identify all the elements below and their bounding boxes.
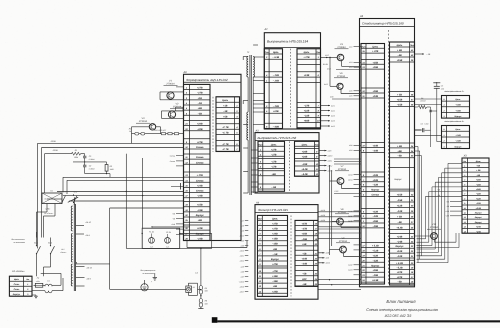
connector A1 Сеть table [11,270,25,273]
A8 left stubs with labels [170,87,184,234]
A4 left net labels [239,219,249,293]
wire bus top [38,143,184,248]
V7 label [335,165,349,171]
block A3 Выпрямитель НП5.015.156 [255,129,320,193]
A5 left input stubs mid [347,144,361,196]
V2 label [170,103,184,109]
A2 dashed divider [290,49,292,129]
T1 switch arm [68,197,78,204]
A5 left rows g7 [361,242,385,244]
A1 rows [9,276,32,296]
A5 right pin column [390,42,415,285]
A5 left rows g3 [361,87,385,89]
transformer T1 winding [71,206,72,286]
V9 label [336,237,350,243]
A2 right rows g3 [297,102,321,104]
block A8 Формирователь АЦ5.145.012 [183,71,242,240]
block A2 Выпрямитель НП5.015.154 [264,28,321,129]
fuse Пр1 [34,277,46,288]
A3 right rows g3 [295,160,320,162]
transistor V6 2Т903А [337,83,343,89]
resistor R1 [45,149,85,159]
block A5 Стабилизатор НП5.015.160 [359,15,415,287]
A5 left pin column [361,44,385,285]
switch contacts S2-2 right of box [73,191,77,203]
fuse F1 [149,230,155,243]
A2 right rows g2 [297,71,321,73]
lamp H1 loop [188,283,201,295]
A4 dashed divider [290,215,292,296]
connector электропитание 3 table [444,120,465,123]
resistor R6 [199,299,208,308]
switch S1 sub labels [44,208,53,215]
transformer T2 primary winding mid [247,112,248,140]
A4 right rows g1 [295,219,318,221]
V10 label [427,223,441,229]
wire bus mid [57,177,186,289]
transistor V10 2Т908А [431,233,438,240]
V5 label [335,43,349,49]
note не включать centre [141,269,156,275]
A4 left pin column [258,215,288,296]
A2 lower output arrows [321,104,335,128]
A2 left rows g2 [264,71,282,73]
resistor R2 [105,162,114,174]
transformer T2 secondary winding [253,57,254,78]
switch contacts S1-2 [44,238,55,277]
A8 left pin column [184,84,211,240]
A5 left rows g1 [361,43,385,45]
A2 left pin column [264,49,282,129]
wire A2 out +27В to V5 [321,54,338,58]
fuse 1А label [195,262,201,286]
wires right top to питание tables [415,99,442,142]
transistor V9 2Т903А [340,246,347,253]
wires X3 labeled stubs [437,188,462,217]
V10 wires [415,233,457,242]
transformer T2 secondary wire [252,77,254,193]
A2 right rows g1 [297,48,321,50]
wire bus labels [50,140,58,152]
transistor V8 2Т908А [337,218,344,225]
note не включать left [12,238,26,244]
A2 left rows g1 [264,48,282,50]
transistor V7 2Т903А [337,178,344,185]
capacitor C2 [83,164,95,173]
wires A4 to A5 mid group [318,229,361,238]
wire verticals to fuse box [126,154,144,249]
transistor V1 2Т903А [167,92,174,99]
X3 rows [462,158,489,233]
transformer T2 core [249,55,251,195]
A8 left rows g2 [184,120,211,122]
A3 left rows g2 [258,158,285,160]
A8 right table [216,97,240,152]
A4 left rows g1 [258,214,288,216]
wire F box to A5 [142,226,212,234]
A8 left rows g5 [184,171,211,173]
wire A2 top feed [253,44,258,46]
capacitor C3 [83,154,95,166]
A8 left rows g4 [184,153,211,155]
A3 left pin column [258,141,285,191]
A5 dashed divider [387,30,389,285]
connector X3 table [463,155,468,158]
block A4 Фильтр НП5.145.015 [255,201,318,299]
A8 left rows g3 [184,138,211,140]
A5 right rows g5 [390,233,415,235]
A3 right rows g2 [295,148,320,150]
switch S1 wires down [37,204,56,238]
wire V5 base drop to V6 [329,57,337,87]
capacitor C6 [415,122,431,132]
A5 right rows g4 [390,190,415,192]
V8 label [335,208,349,214]
T2 right taps to A2 [253,57,264,125]
A1 loop wires [41,273,63,290]
A5 left input stubs upper [348,45,361,97]
connector электропитание 2 table [444,90,465,93]
V9 wires [330,250,362,257]
transformer T2 primary winding upper [247,57,248,78]
A3 dashed divider [289,141,291,191]
V5 emitter loop to A5 [323,61,361,71]
ground symbol chassis [153,273,157,280]
switch S1 box [42,190,62,204]
right mesh inner verticals from A5 rows [415,147,422,263]
choke L1 [32,280,52,293]
T2 left taps to A8 [243,57,248,194]
A4 right output arrows [318,252,330,265]
A5 left rows g5 [361,171,385,173]
A4 right column [295,220,318,286]
transistor V3 2Т903А [149,124,155,130]
V6 label [334,72,348,78]
A5 right rows g2 [390,91,415,93]
A2 right column [297,49,321,129]
V1 collector loop [160,92,184,100]
filter ladder wires [73,161,110,177]
lamp H1 [186,286,195,292]
capacitor C5 [433,82,444,97]
A5 left rows g6 [361,208,385,210]
A5 left input stubs lower [347,210,361,275]
A8 inner dashed link [212,97,214,152]
X3 bottom left wires [417,233,460,248]
A5 output arrow -5В [415,53,431,56]
transformer T2 primary wire [247,77,249,112]
A3 left rows g1 [258,140,285,142]
A4 right rows g2 [295,249,318,251]
wire bottom rail [126,234,247,263]
A5 right rows g1 [390,41,415,43]
A3 right column [295,141,320,176]
scan edge square [212,317,218,323]
A2 left rows g4 [264,122,282,124]
switch contacts S1-1 [34,238,41,277]
A5 right rows g3 [390,142,415,144]
wires A4 to A5 upper group [318,209,361,227]
A5 left rows g4 [361,142,385,144]
A3 left rows g4 [258,183,285,185]
wires A3 to A5 long [334,159,361,164]
V7 wires [330,165,362,255]
switch contacts S2-1 right of box [61,191,65,203]
V1 label [164,80,178,86]
resistor R7 [415,97,437,147]
A3 left rows g3 [258,170,285,172]
titleblock text [366,299,438,318]
A5 right rows g6 [390,259,415,261]
V2 collector loop [162,111,184,119]
A5 left rows g2 [361,59,385,61]
wires S1 contacts to T1 [37,199,63,238]
resistor R5 [199,286,208,295]
scan edge bar [217,320,500,322]
T1 taps and labels [69,200,93,287]
V2 aux box [176,107,184,111]
transistor V2 2Т903А [168,111,175,118]
V3 label [136,117,150,123]
A3 output arrows [319,150,332,173]
fuse F2 [165,231,172,243]
transformer T2 primary wire lower [247,140,249,193]
T1 mid tap wire [60,248,110,264]
transistor V5 2Т908А [337,54,344,61]
lamp chain wires [198,294,203,309]
fuse ratings [150,245,169,248]
V6 emitter loop to A5 [323,83,361,99]
wires A4 to A5 bottom group [318,279,361,290]
V8 wires [332,170,361,246]
A8 left rows g6 [184,201,211,203]
A4 left rows g2 [258,267,288,269]
A8 left rows g1 [184,83,211,85]
A3 right rows g1 [295,140,320,142]
A2 left rows g3 [264,102,282,104]
A8 left rows g7 [184,224,211,226]
diode chain VD5-VD9 [129,128,184,135]
T2 right taps to A3 [251,150,258,192]
V3 wires [132,127,161,144]
A8 left mid ticks [171,183,184,190]
right mesh fan X3 to A5 bottom [417,163,463,262]
ground circle заземление [141,280,153,291]
A5 right table корпус cell [390,168,415,190]
A1 ground [32,295,38,299]
transformer T1 core [73,204,75,291]
fuse box F1 F2 [142,228,180,248]
